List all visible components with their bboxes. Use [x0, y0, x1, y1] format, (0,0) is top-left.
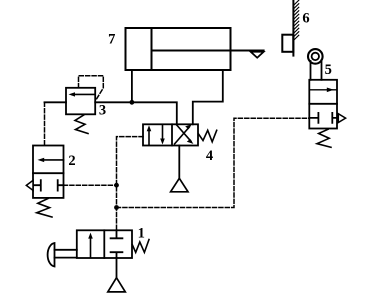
- node B junction dot: [114, 183, 119, 188]
- valve U5 blocked port right: [332, 113, 337, 123]
- valve U1 divider: [103, 230, 105, 258]
- valve U2 blocked port right: [58, 180, 64, 190]
- valve U1 blocked port bottom: [111, 252, 123, 258]
- wire: cylinder left port down to node A: [131, 70, 133, 102]
- wall 6 stop bracket: [282, 35, 293, 52]
- wire: valve 3 left port: [45, 101, 67, 103]
- valve U2 flow arrow: [44, 159, 64, 161]
- pilot wire: valve 3 to valve 2 top (dashed): [44, 102, 46, 145]
- valve U4 divider: [171, 124, 173, 145]
- valve U5 body: [309, 80, 337, 129]
- valve U4 up arrow: [148, 130, 150, 145]
- svg-text:3: 3: [99, 102, 106, 118]
- valve U3 pilot dashed loop: [79, 76, 104, 100]
- svg-text:2: 2: [68, 153, 75, 169]
- valve U4 body: [143, 124, 198, 145]
- wall 6 line: [292, 0, 294, 56]
- svg-text:4: 4: [206, 148, 213, 164]
- valve U3 spring: [75, 115, 88, 134]
- valve U2 mid line: [33, 172, 64, 174]
- cylinder C7 piston: [151, 28, 153, 70]
- node A junction dot: [130, 100, 135, 105]
- valve U5 blocked port left: [309, 113, 318, 123]
- pressure source under valve 4: [171, 178, 188, 192]
- valve U1 up arrow: [90, 237, 92, 258]
- valve U2 spring: [37, 199, 52, 218]
- pilot wire: valve 4 pilot + trunk down to valve 1 (dashed): [117, 137, 144, 231]
- svg-text:7: 7: [108, 31, 115, 47]
- valve U1 push button: [48, 243, 55, 267]
- valve U5 spring: [317, 129, 331, 147]
- node C junction dot: [114, 205, 119, 210]
- wall 6 hatching: [293, 0, 298, 40]
- valve U4 spring: [199, 130, 217, 142]
- wire: valve 3 output to valve 4 left top port: [95, 102, 177, 124]
- svg-text:5: 5: [325, 62, 332, 78]
- valve U5 mid line: [309, 103, 337, 105]
- valve U1 body: [77, 230, 132, 258]
- pressure source under valve 1: [108, 278, 126, 292]
- svg-text:6: 6: [302, 10, 309, 26]
- valve U5 flow arrow: [310, 89, 336, 91]
- cylinder C7 body: [126, 28, 231, 70]
- valve U1 spring: [132, 240, 149, 253]
- wire: valve 1 bottom port: [116, 258, 118, 278]
- valve U3 body: [66, 88, 95, 115]
- valve U1 blocked port top: [111, 230, 123, 238]
- valve U2 body: [33, 146, 64, 198]
- valve U2 exhaust triangle: [26, 180, 33, 190]
- svg-text:1: 1: [138, 226, 145, 242]
- valve U4 crossed arrows: [175, 127, 190, 144]
- wire: valve 4 bottom port: [178, 146, 180, 179]
- valve U5 roller: [308, 49, 323, 64]
- valve U2 blocked port left: [33, 180, 41, 190]
- pilot wire: trunk to valve 5 (dashed): [117, 118, 310, 207]
- pilot wire: valve 2 output to trunk (dashed): [64, 184, 117, 186]
- valve U5 exhaust triangle: [338, 114, 345, 123]
- wire: cylinder right port down and to valve 4: [193, 70, 223, 124]
- valve U5 stem: [310, 61, 312, 80]
- valve U4 down arrow: [162, 125, 164, 140]
- cylinder C7 cam on rod end: [251, 52, 264, 58]
- cylinder C7 rod: [152, 50, 264, 52]
- valve U3 flow arrow: [72, 93, 95, 95]
